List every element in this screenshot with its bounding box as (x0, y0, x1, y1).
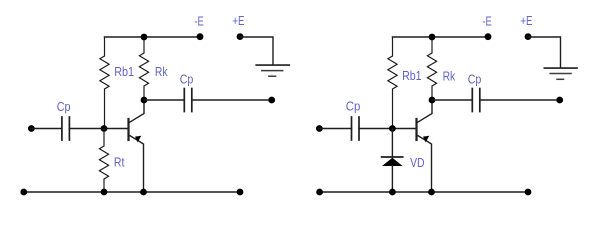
ground (left) (256, 65, 289, 76)
node: Rk top junction (left) (141, 34, 148, 41)
resistor Rb1 (right) (388, 37, 397, 129)
wire: +E to ground (left) (240, 37, 273, 65)
resistor Rb1 (left) (100, 37, 109, 129)
resistor Rt (left) (99, 129, 108, 193)
resistor Rk (left) (139, 37, 148, 100)
wire: collector junction to Cp out (left) (144, 99, 184, 101)
node: base junction (right) (389, 125, 396, 132)
terminal +E (right) (525, 33, 532, 40)
svg-text:-E: -E (194, 14, 204, 29)
node: bottom rail right end (right) (525, 189, 532, 196)
svg-text:Rk: Rk (443, 68, 456, 83)
wire: Cp to base junction (left) (69, 128, 128, 130)
wire: collector junction to Cp out (right) (432, 99, 472, 101)
terminal -E (left) (197, 33, 204, 40)
node: bottom rail left end (right) (316, 189, 323, 196)
capacitor Cp output (left) (184, 89, 192, 112)
wire: Cp to base junction (right) (359, 128, 417, 130)
capacitor Cp input (left) (62, 117, 70, 140)
transistor VT (left): emitter lead (130, 135, 144, 192)
wire: top rail left circuit (105, 36, 201, 38)
transistor VT (left): collector lead (130, 100, 145, 122)
terminal -E (right) (485, 33, 492, 40)
wire: Cp out to output terminal (right) (480, 99, 560, 101)
node: emitter bottom junction (left) (140, 189, 147, 196)
transistor VT (right): emitter lead (418, 135, 432, 192)
terminal input (left) (28, 125, 35, 132)
terminal output (left) (268, 97, 275, 104)
transistor VT (right): base bar (415, 119, 417, 140)
node: collector junction (left) (141, 97, 148, 104)
node: bottom rail right end (left) (237, 189, 244, 196)
wire: bottom rail (right) (320, 191, 528, 193)
node: Rk top junction (right) (429, 34, 436, 41)
svg-text:Rt: Rt (114, 154, 125, 169)
node: bottom rail left end (left) (20, 189, 27, 196)
transistor VT (right): collector lead (418, 100, 433, 122)
node: emitter bottom junction (right) (428, 189, 435, 196)
node: Rt bottom junction (left) (101, 189, 108, 196)
terminal input (right) (316, 125, 323, 132)
terminal output (right) (556, 97, 563, 104)
ground (right) (544, 68, 577, 79)
wire: Cp out to output terminal (left) (192, 99, 272, 101)
capacitor Cp output (right) (472, 89, 480, 112)
wire: top rail right circuit (393, 36, 489, 38)
resistor Rk (right) (427, 37, 436, 100)
diode VD (right) (382, 157, 403, 166)
svg-text:Cp: Cp (468, 71, 482, 86)
terminal +E (left) (237, 33, 244, 40)
wire: input to Cp (left) (31, 128, 62, 130)
svg-text:Cp: Cp (180, 71, 194, 86)
wire: base junction to diode (right) (391, 129, 393, 158)
svg-text:Cp: Cp (346, 99, 361, 114)
transistor VT (left): base bar (127, 119, 129, 140)
svg-text:+E: +E (232, 13, 244, 28)
svg-text:Rk: Rk (155, 64, 168, 79)
transistor VT (left): emitter arrow (PNP) (135, 136, 141, 143)
svg-text:Cp: Cp (57, 99, 71, 114)
wire: diode to bottom rail (right) (391, 166, 393, 193)
transistor VT (right): emitter arrow (PNP) (423, 136, 429, 143)
capacitor Cp input (right) (352, 117, 360, 140)
svg-text:+E: +E (520, 13, 532, 28)
wire: +E to ground (right) (528, 37, 561, 68)
node: diode bottom junction (right) (389, 189, 396, 196)
svg-text:Rb1: Rb1 (402, 68, 422, 83)
svg-text:VD: VD (410, 155, 425, 170)
wire: input to Cp (right) (319, 128, 351, 130)
wire: bottom rail (left) (24, 191, 240, 193)
svg-text:-E: -E (482, 14, 492, 29)
node: base junction (left) (101, 125, 108, 132)
node: collector junction (right) (429, 97, 436, 104)
svg-text:Rb1: Rb1 (114, 64, 134, 79)
